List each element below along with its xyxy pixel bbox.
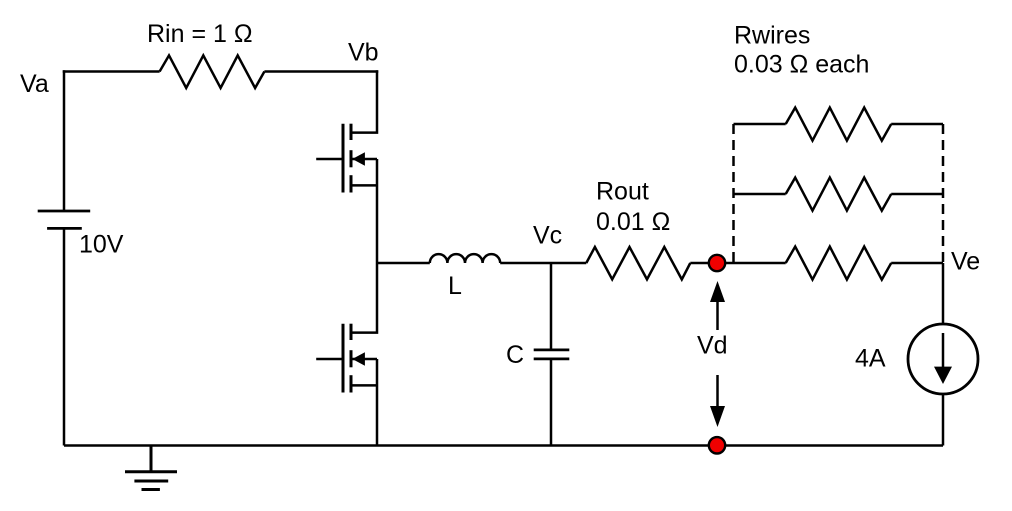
transistor Q1 (upper MOSFET) <box>316 124 377 193</box>
current source I1 4A <box>908 324 978 394</box>
wire: node Vd top to bottom Rwires resistor <box>717 262 786 265</box>
svg-text:Vc: Vc <box>533 222 562 250</box>
node Vd- (red dot on ground rail) <box>709 437 725 453</box>
svg-text:0.03 Ω each: 0.03 Ω each <box>734 51 869 79</box>
svg-text:Vb: Vb <box>348 39 379 67</box>
wire: top wire from Rin to Vb corner <box>264 70 378 73</box>
wire: capacitor bottom to bottom rail <box>550 359 553 446</box>
wire: bottom ground rail <box>64 444 943 447</box>
svg-text:L: L <box>448 272 462 300</box>
resistor R_wire1 (top parallel wire resistor) <box>786 108 892 141</box>
arrow: Vd measurement arrow up <box>710 281 725 330</box>
ground symbol <box>125 446 177 490</box>
svg-text:Rwires: Rwires <box>734 21 810 49</box>
capacitor C <box>534 350 570 359</box>
wire: left rail from Va corner down to battery top <box>63 70 66 211</box>
wire: current source bottom to bottom rail <box>942 394 945 446</box>
svg-text:Ve: Ve <box>951 248 980 276</box>
wire: vertical from Q2 source/body down to bottom rail <box>376 359 379 446</box>
wire: top parallel branch right segment <box>891 123 943 126</box>
svg-text:Rout: Rout <box>596 178 649 206</box>
wire: Vb rail down to upper MOSFET drain <box>351 70 377 132</box>
wire: top parallel branch left segment <box>734 123 786 126</box>
resistor R_wire2 (middle parallel wire resistor) <box>786 178 892 211</box>
battery V1 10V <box>38 211 90 228</box>
svg-text:C: C <box>506 341 524 369</box>
wire: bottom Rwires resistor to Ve rail <box>891 262 943 265</box>
wire: dashed right bus of parallel resistors <box>942 124 945 262</box>
svg-text:Vd: Vd <box>697 331 728 359</box>
arrow: Vd measurement arrow down <box>710 375 725 427</box>
wire: Vc rail from middle wire down to capacitor <box>550 263 553 350</box>
svg-text:0.01 Ω: 0.01 Ω <box>596 208 670 236</box>
inductor L <box>430 254 500 263</box>
resistor R_wire3 (bottom parallel wire resistor) <box>786 247 892 280</box>
wire: left rail from battery bottom to ground rail <box>63 228 66 445</box>
wire: top wire from Va corner to Rin <box>63 70 160 73</box>
resistor Rin <box>160 55 265 88</box>
wire: middle parallel branch right segment <box>891 193 943 196</box>
svg-text:10V: 10V <box>79 231 124 259</box>
svg-text:Rin = 1 Ω: Rin = 1 Ω <box>147 20 253 48</box>
wire: switch node to inductor <box>377 262 430 265</box>
resistor Rout <box>586 247 690 279</box>
wire: middle parallel branch left segment <box>734 193 786 196</box>
transistor Q2 (lower MOSFET) <box>316 324 377 393</box>
svg-text:Va: Va <box>20 70 49 98</box>
wire: inductor to Rout (through node Vc) <box>500 262 586 265</box>
wire: vertical from Q1 source/body down to Q2 drain (switch node) <box>351 159 377 333</box>
node Vd+ (red dot on output wire) <box>709 255 725 271</box>
wire: Ve rail from node Ve down to current source <box>942 263 945 324</box>
svg-text:4A: 4A <box>855 344 886 372</box>
wire: Rout to node Vd top <box>690 262 717 265</box>
wire: dashed left bus of parallel resistors <box>732 124 735 263</box>
